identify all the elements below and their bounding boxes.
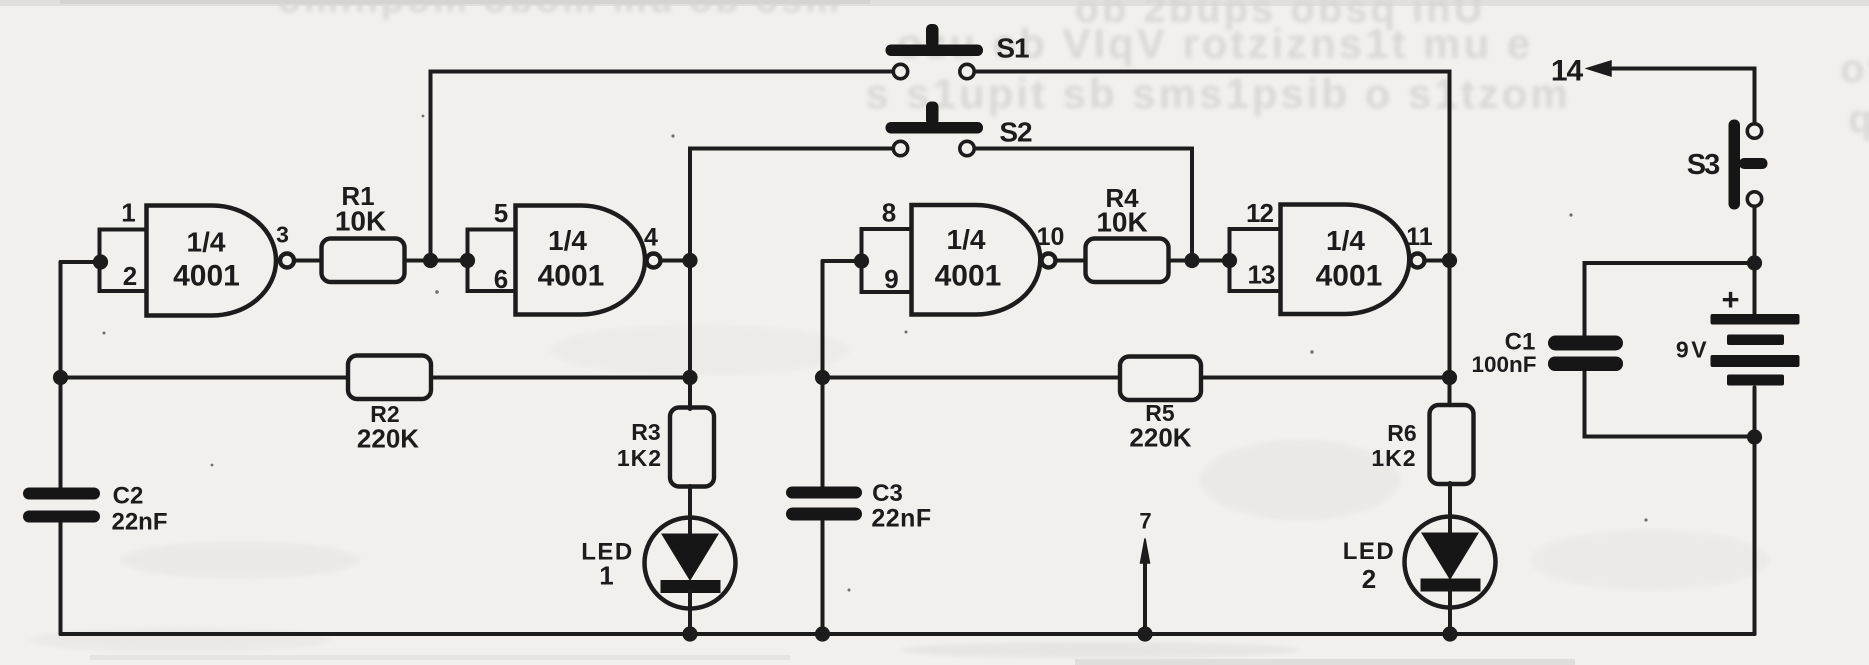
label R2 [370, 401, 399, 427]
svg-text:4001: 4001 [538, 260, 605, 293]
svg-text:1K2: 1K2 [617, 445, 662, 471]
NOR gate U1A (1/4 4001) body [147, 206, 277, 316]
wire: C1 branch [1585, 263, 1755, 437]
gate1 pin 1 label [121, 198, 135, 228]
svg-text:R6: R6 [1387, 420, 1416, 446]
value 1K2 (R3) [617, 445, 662, 471]
gate3 text 4001 [935, 260, 1002, 293]
gate1 pin 2 label [123, 261, 137, 291]
label LED 1 [581, 539, 634, 591]
wire: R4 to gate4 input [1169, 259, 1230, 263]
svg-text:1/4: 1/4 [947, 224, 986, 255]
value 22nF (C2) [111, 509, 167, 536]
wire: R6 to LED2 [1448, 483, 1452, 533]
gate4 pin 11 label [1406, 223, 1433, 251]
svg-text:ominpom obom mu ob osm: ominpom obom mu ob osm [278, 0, 842, 21]
resistor R4 10K [1086, 239, 1169, 283]
capacitor C3 bottom plate [786, 508, 862, 521]
gate4 output bubble (pin 11) [1411, 254, 1425, 268]
wire: R2 left feed [61, 376, 349, 380]
wire: R1 to gate2 input [405, 259, 468, 263]
capacitor C1 bottom plate [1548, 357, 1623, 372]
value 22nF (C3) [871, 505, 931, 533]
LED 2 [1405, 517, 1496, 608]
wire: R2 right to node [431, 376, 690, 380]
node gate2 input bracket [460, 253, 475, 268]
svg-text:220K: 220K [1129, 423, 1191, 453]
svg-text:10: 10 [1037, 223, 1065, 251]
capacitor C3 top plate [786, 487, 862, 499]
svg-text:S1: S1 [996, 33, 1029, 64]
pin 7 arrow [1141, 539, 1150, 635]
svg-text:4001: 4001 [1316, 260, 1383, 293]
wire: gate4 output to node [1426, 259, 1450, 263]
svg-text:C3: C3 [872, 480, 903, 507]
svg-text:S2: S2 [999, 117, 1032, 148]
svg-text:4001: 4001 [935, 260, 1002, 293]
svg-text:220K: 220K [357, 424, 419, 454]
svg-text:q: q [1848, 97, 1869, 141]
gate3 pin 9 label [884, 264, 898, 294]
label C3 [872, 480, 903, 507]
wire: gate1 output to R1 [296, 259, 322, 263]
value 10K (R4) [1096, 207, 1147, 238]
svg-text:1: 1 [599, 561, 613, 591]
svg-text:11: 11 [1406, 223, 1433, 251]
node R1-S1 junction [423, 253, 438, 268]
node gate3 input bracket [854, 253, 869, 268]
scan dust specks [103, 115, 1648, 592]
ground rail [61, 632, 1755, 636]
svg-text:10K: 10K [1096, 207, 1147, 238]
wire: R3 to LED1 [688, 486, 692, 534]
node pin7 ground [1137, 626, 1152, 641]
label LED 2 [1343, 538, 1396, 594]
svg-text:4: 4 [644, 224, 658, 252]
svg-text:6: 6 [494, 264, 508, 294]
node gate2 output [682, 253, 697, 268]
label R5 [1145, 400, 1175, 426]
wire: gate1 input feed [61, 260, 101, 264]
node gate4 input bracket [1222, 253, 1237, 268]
svg-text:1K2: 1K2 [1371, 445, 1416, 471]
wire: pin14 arrow from S3 [1587, 61, 1755, 122]
label pin 14 [1551, 55, 1584, 88]
gate2 input bracket (pins 5,6) [468, 230, 516, 292]
NOR gate U1B (1/4 4001) body [516, 206, 645, 315]
node at gate1 input bracket [93, 254, 108, 269]
label R3 [631, 419, 660, 445]
LED2 triangle [1421, 533, 1479, 581]
LED1 triangle [661, 534, 719, 582]
label C1 [1505, 329, 1536, 356]
node gate4 output [1442, 253, 1457, 268]
pushbutton S1 right contact [960, 64, 974, 78]
label R6 [1387, 420, 1416, 446]
svg-text:9V: 9V [1676, 337, 1709, 363]
node LED1 ground [682, 626, 697, 641]
svg-text:7: 7 [1139, 509, 1151, 534]
gate4 text 1/4 [1326, 225, 1365, 256]
value 1K2 (R6) [1371, 445, 1416, 471]
svg-text:1/4: 1/4 [548, 225, 587, 256]
gate1 text 1/4 [187, 227, 226, 258]
wire: gate3 input feed [823, 259, 862, 263]
gate2 pin 4 label [644, 224, 658, 252]
value 220K (R2) [357, 424, 419, 454]
svg-text:+: + [1721, 282, 1739, 317]
wire: R5 left [823, 376, 1121, 380]
wire: battery link top [1753, 263, 1757, 314]
svg-text:2: 2 [1362, 564, 1376, 594]
svg-text:1: 1 [121, 198, 135, 228]
faint paper blotches [30, 325, 1770, 658]
node C3 ground [815, 626, 830, 641]
label pin 7 [1139, 509, 1151, 534]
wire: gate2 output to node [662, 259, 690, 263]
switch S3 top contact [1747, 124, 1761, 138]
battery plus sign [1721, 282, 1739, 317]
node R5 right junction [1442, 370, 1457, 385]
svg-text:13: 13 [1248, 260, 1275, 290]
node battery bottom [1747, 429, 1762, 444]
capacitor C1 top plate [1548, 336, 1623, 351]
svg-text:100nF: 100nF [1471, 352, 1536, 377]
node R5 left junction [815, 370, 830, 385]
bleed-through text lines (mirrored print from page back) [278, 0, 1869, 141]
label C2 [113, 483, 144, 510]
resistor R5 220K [1120, 357, 1201, 401]
pushbutton S1 left contact [893, 64, 907, 78]
value 10K (R1) [335, 206, 386, 237]
svg-text:14: 14 [1551, 55, 1584, 88]
resistor R3 1K2 [670, 408, 714, 487]
label R4 [1105, 183, 1139, 213]
gate3 output bubble (pin 10) [1042, 254, 1056, 268]
svg-text:1/4: 1/4 [187, 227, 226, 258]
svg-text:22nF: 22nF [871, 505, 931, 533]
resistor R1 10K [322, 239, 405, 283]
pushbutton S2 right contact [960, 141, 974, 155]
label S2 [999, 117, 1032, 148]
LED1 cathode bar [661, 580, 721, 593]
wire: S3 to battery top node [1753, 208, 1757, 263]
wire: LED1 to ground rail [688, 591, 692, 634]
gate3 input bracket (pins 8,9) [862, 229, 912, 292]
svg-text:ot: ot [1840, 47, 1869, 91]
switch S3 bottom contact [1747, 192, 1761, 206]
LED2 cathode bar [1421, 579, 1481, 592]
svg-text:4001: 4001 [173, 260, 240, 293]
wire: battery bottom [1753, 388, 1757, 635]
gate1 input bracket (pins 1,2) [100, 230, 147, 292]
resistor R2 220K [348, 356, 431, 400]
gate2 output bubble (pin 4) [647, 254, 661, 268]
gate4 pin 12 label [1246, 198, 1273, 228]
node R4-S2 junction [1184, 253, 1199, 268]
wire: left vertical net (gate1 inputs / C2 / R2) [59, 262, 63, 634]
wire: S1 left leg [431, 72, 892, 261]
gate3 pin 10 label [1037, 223, 1065, 251]
gate1 pin 3 label [276, 222, 289, 248]
node LED2 ground [1442, 626, 1457, 641]
svg-text:S3: S3 [1687, 149, 1720, 181]
svg-text:9: 9 [884, 264, 898, 294]
label 9V [1676, 337, 1709, 363]
wire: LED2 to ground rail [1448, 590, 1452, 634]
label S3 [1687, 149, 1720, 181]
label S1 [996, 33, 1029, 64]
svg-text:ozu eb VIqV rotzizns1t mu e: ozu eb VIqV rotzizns1t mu e [897, 20, 1533, 67]
label R1 [341, 181, 374, 211]
gate2 pin 5 label [494, 198, 508, 228]
gate2 text 1/4 [548, 225, 587, 256]
svg-text:2: 2 [123, 261, 137, 291]
pushbutton S1 bar [886, 24, 984, 56]
gate3 text 1/4 [947, 224, 986, 255]
gate4 text 4001 [1316, 260, 1383, 293]
svg-text:C2: C2 [113, 483, 144, 510]
switch S3 bar [1729, 120, 1768, 210]
resistor R6 1K2 [1430, 405, 1474, 484]
wire: S1 right leg to gate4 output [976, 72, 1450, 261]
NOR gate U1C (1/4 4001) body [912, 205, 1041, 315]
wire: gate2 output down to R3 [688, 261, 692, 410]
node R2 right junction [682, 370, 697, 385]
paper top edge speckle [0, 0, 1869, 6]
wire: gate3 input down to C3 [821, 261, 825, 634]
svg-text:5: 5 [494, 198, 508, 228]
NOR gate U1D (1/4 4001) body [1281, 205, 1410, 315]
gate2 text 4001 [538, 260, 605, 293]
wire: gate3 output to R4 [1057, 259, 1086, 263]
value 100nF (C1) [1471, 352, 1536, 377]
pushbutton S2 bar [886, 102, 984, 134]
gate1 output bubble (pin 3) [280, 254, 294, 268]
gate4 pin 13 label [1248, 260, 1275, 290]
battery B1 9V plates [1711, 314, 1800, 386]
svg-text:3: 3 [276, 222, 289, 248]
svg-text:10K: 10K [335, 206, 386, 237]
wire: S2 left leg [690, 149, 891, 261]
capacitor C2 top plate [23, 488, 100, 500]
wire: gate4 output down through R6 chain [1448, 261, 1452, 406]
gate4 input bracket (pins 12,13) [1230, 229, 1281, 291]
gate1 text 4001 [173, 260, 240, 293]
wire: R5 right to node [1201, 376, 1450, 380]
pushbutton S2 left contact [893, 141, 907, 155]
capacitor C2 bottom plate [23, 511, 100, 523]
svg-text:1/4: 1/4 [1326, 225, 1365, 256]
gate3 pin 8 label [882, 198, 896, 228]
value 220K (R5) [1129, 423, 1191, 453]
node battery top [1747, 255, 1762, 270]
svg-text:12: 12 [1246, 198, 1273, 228]
node R2 left junction [53, 370, 68, 385]
svg-text:R3: R3 [631, 419, 660, 445]
svg-text:8: 8 [882, 198, 896, 228]
LED 1 [645, 518, 736, 609]
svg-text:22nF: 22nF [111, 509, 167, 536]
svg-text:LED: LED [1343, 538, 1396, 565]
gate2 pin 6 label [494, 264, 508, 294]
wire: S2 right leg to R4 node [976, 149, 1192, 261]
